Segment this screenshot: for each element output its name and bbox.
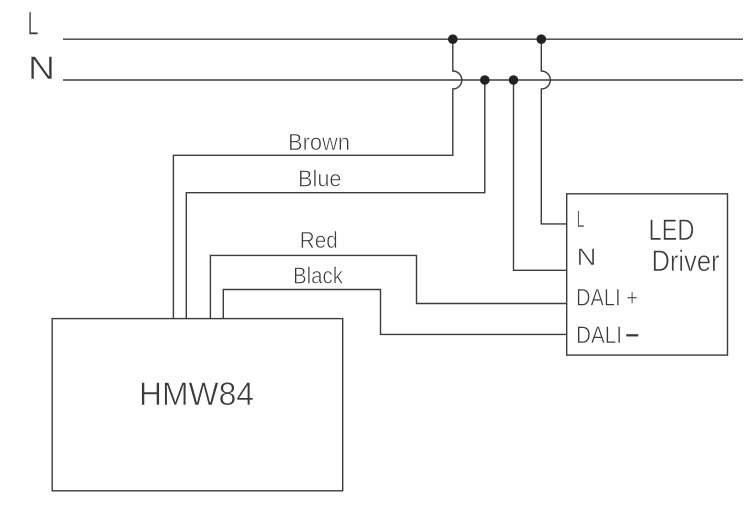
svg-text:L: L — [577, 206, 585, 233]
wire blue: from N-rail junction down, left and down into HMW84 — [186, 80, 485, 319]
svg-text:Red: Red — [300, 227, 338, 253]
svg-text:LED: LED — [649, 214, 695, 247]
pin label DALI − (driver DALI minus terminal) — [576, 322, 638, 349]
svg-text:Black: Black — [293, 262, 343, 288]
wire brown: from L-rail junction down, hop over N rail, left and down into HMW84 — [173, 39, 461, 318]
svg-text:Brown: Brown — [288, 129, 350, 155]
junction dot: blue tap on N rail — [480, 75, 490, 85]
svg-text:L: L — [28, 6, 39, 42]
LED driver box — [567, 194, 728, 355]
wire: L rail junction down, hop over N rail, down and right into LED driver L pin — [541, 39, 566, 224]
svg-text:Blue: Blue — [298, 166, 342, 192]
svg-text:DALI +: DALI + — [576, 284, 638, 311]
HMW84 sensor box — [52, 319, 343, 491]
wire: N rail junction down and right into LED driver N pin — [514, 80, 567, 270]
wire L rail (mains live line) — [63, 38, 743, 40]
wire black: from HMW84 top up, right, down, right into LED driver DALI - pin — [223, 290, 566, 335]
wire N rail (mains neutral line) — [63, 79, 743, 81]
junction dot: driver N tap on N rail — [509, 75, 519, 85]
junction dot: driver L tap on L rail — [537, 34, 547, 44]
junction dot: brown tap on L rail — [448, 34, 458, 44]
svg-text:N: N — [28, 50, 55, 86]
svg-text:N: N — [577, 244, 597, 271]
svg-text:DALI: DALI — [576, 322, 622, 349]
wire red: from HMW84 top up, right, down, right into LED driver DALI + pin — [210, 255, 566, 318]
svg-text:HMW84: HMW84 — [139, 376, 254, 412]
svg-text:Driver: Driver — [652, 245, 720, 278]
